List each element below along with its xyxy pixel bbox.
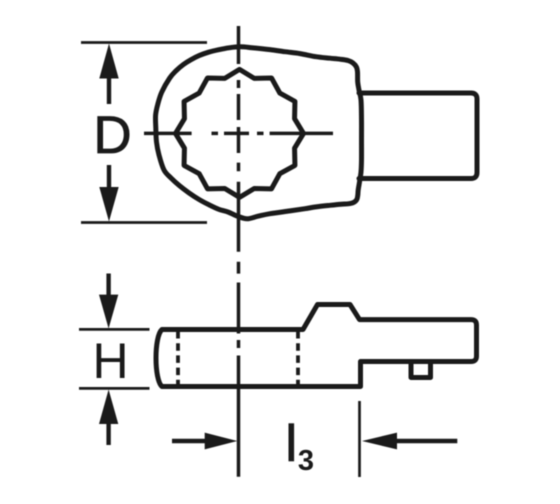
svg-text:3: 3: [298, 445, 314, 477]
svg-text:H: H: [92, 333, 128, 389]
svg-text:D: D: [93, 106, 131, 165]
